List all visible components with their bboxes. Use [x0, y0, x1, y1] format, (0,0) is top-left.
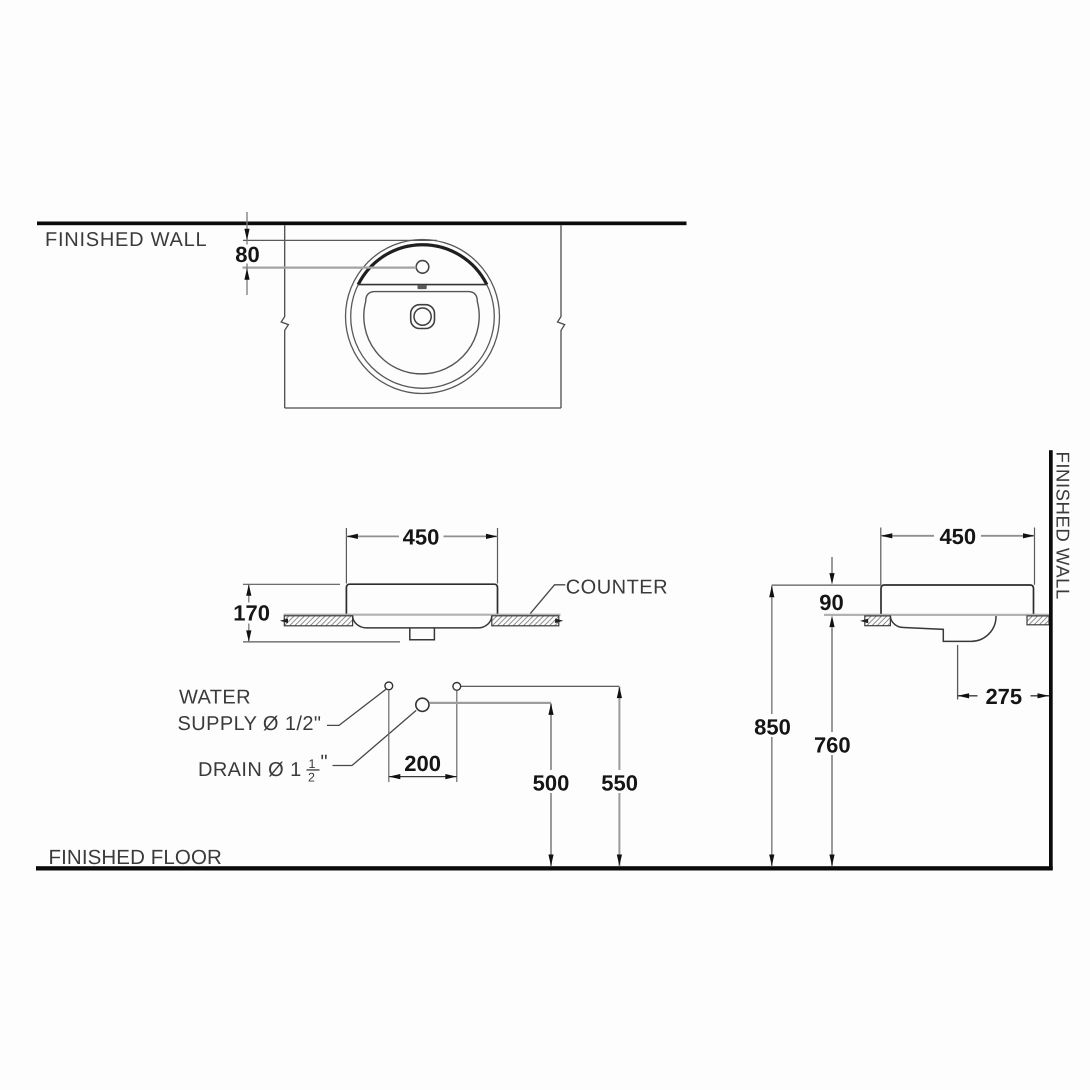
dim 275: right arrow: [1038, 693, 1050, 698]
dim 170: text: [231, 603, 272, 624]
dim 450 side: right extension line: [1034, 528, 1036, 585]
svg-text:WATER: WATER: [179, 687, 251, 709]
dim 550: text: [596, 770, 642, 793]
svg-text:80: 80: [235, 242, 259, 267]
dim 500: arrow down: [548, 855, 553, 867]
dim 170: arrow up: [246, 584, 251, 596]
dim 200: left extension line: [388, 690, 390, 782]
counter left slab hatched (side view): [865, 616, 891, 626]
counter outline bottom edge (top view): [285, 407, 561, 409]
dim 275: dimension line segments: [958, 695, 978, 697]
dim 850: text: [749, 714, 795, 737]
svg-text:1: 1: [309, 757, 316, 771]
dim 760: text: [809, 732, 855, 755]
dim 80 extension line to sink top edge (top view): [243, 239, 437, 241]
sink body (side view): [881, 585, 1034, 615]
counter left slab hatched (front view): [284, 616, 352, 626]
dim 450 side: left extension line: [880, 528, 882, 585]
svg-text:FINISHED WALL: FINISHED WALL: [1053, 452, 1074, 600]
dim 850: arrow down: [769, 855, 774, 867]
dim 550: arrow down: [617, 855, 622, 867]
dim 200: dimension line: [389, 776, 457, 778]
svg-text:COUNTER: COUNTER: [566, 576, 668, 598]
dim 90: arrow down: [829, 573, 834, 585]
water supply hole left (front view): [385, 682, 393, 690]
counter top line (side view): [824, 614, 1049, 616]
water supply hole right (front view): [453, 683, 461, 691]
reference line supply to 550 dim: [461, 685, 619, 687]
counter break arrow left (side view): [860, 619, 868, 624]
dim 275: left arrow: [958, 693, 970, 698]
dim 450 side: left arrow: [881, 533, 893, 538]
counter break arrow right (front view): [555, 619, 563, 624]
reference line drain to 500 dim: [429, 702, 551, 704]
sink inner rim circle (top view): [351, 245, 495, 389]
svg-text:200: 200: [404, 751, 441, 776]
COUNTER leader line: [530, 585, 565, 614]
dim 450 front: left extension line: [345, 528, 347, 584]
dim 90: upper dimension line: [831, 557, 833, 574]
drain fraction 1/2 stacked: [308, 757, 316, 784]
svg-text:DRAIN Ø 1: DRAIN Ø 1: [198, 759, 302, 781]
dim 450 front: right extension line: [497, 528, 499, 584]
svg-text:FINISHED FLOOR: FINISHED FLOOR: [49, 846, 222, 869]
dim 760: arrow down: [829, 855, 834, 867]
dim 760: dimension line: [831, 627, 833, 866]
counter top line (front view): [284, 614, 561, 616]
dim 80 dimension line (top view): [246, 212, 248, 295]
bowl underside with trap (side view): [890, 616, 996, 642]
dim 80 arrow down: [244, 229, 249, 241]
deck chord line (top view): [358, 284, 487, 286]
sink outer rim circle (top view): [346, 240, 500, 394]
dim 450 front: right arrow: [486, 534, 498, 539]
svg-text:90: 90: [819, 590, 843, 615]
counter right slab hatched (side view): [1027, 616, 1049, 625]
counter outline right edge with break (top view): [558, 225, 565, 408]
svg-text:450: 450: [403, 525, 440, 550]
svg-text:SUPPLY Ø 1/2": SUPPLY Ø 1/2": [178, 713, 322, 735]
faucet hole (top view): [416, 261, 429, 274]
svg-text:2: 2: [308, 771, 315, 785]
dim 80 arrow up: [244, 268, 249, 280]
drain stub (front view): [410, 628, 435, 640]
dim 170: bottom extension line: [243, 641, 400, 643]
svg-text:550: 550: [601, 771, 638, 796]
drain centerline (side view): [957, 645, 959, 700]
overflow slot (top view): [418, 285, 427, 289]
dim 450 front: left arrow: [346, 534, 358, 539]
dim 500: arrow up: [548, 703, 553, 715]
counter break arrow left (front view): [280, 619, 288, 624]
dim 500: text: [528, 770, 574, 793]
bowl underside (front view): [353, 616, 492, 628]
dim 90: arrow up: [829, 616, 834, 628]
finished floor line: [36, 866, 1053, 870]
dim 550: dimension line: [618, 687, 620, 866]
dim 500: dimension line: [550, 703, 552, 866]
counter right slab hatched (front view): [492, 616, 559, 626]
dim 200: right extension line: [456, 691, 458, 782]
dim 170: arrow down: [246, 630, 251, 642]
svg-text:": ": [321, 752, 328, 774]
finished wall line (side view, right): [1049, 450, 1053, 870]
finished wall line (top view): [37, 222, 687, 226]
dim 200: left arrow: [389, 774, 401, 779]
svg-text:850: 850: [754, 715, 791, 740]
dim 850: dimension line: [771, 586, 773, 866]
drain pipe circle (front view): [416, 698, 429, 711]
dim 450 side: right arrow: [1023, 533, 1035, 538]
extension line at rim level (side view): [772, 584, 881, 586]
dim 200: right arrow: [445, 774, 457, 779]
drain inner ring (top view): [414, 308, 431, 325]
drain leader line: [333, 710, 417, 765]
water supply leader line: [327, 689, 386, 725]
svg-text:500: 500: [533, 771, 570, 796]
svg-text:450: 450: [939, 524, 976, 549]
counter outline left edge with break (top view): [281, 225, 288, 408]
dim 850: arrow up: [769, 586, 774, 598]
svg-text:FINISHED WALL: FINISHED WALL: [45, 229, 207, 251]
dim 80 extension line to faucet hole (top view): [243, 267, 417, 269]
svg-text:275: 275: [985, 684, 1022, 709]
svg-text:760: 760: [814, 733, 851, 758]
dim 550: arrow up: [617, 687, 622, 699]
dim 80 text: [233, 245, 263, 264]
dim 170: dimension line: [248, 584, 250, 642]
dim 170: top extension line: [243, 583, 340, 585]
thick deck arc (top view): [358, 245, 487, 285]
basin bowl outline (top view): [364, 292, 479, 374]
dim 450 front: dimension line segments: [346, 535, 399, 537]
sink body (front view): [346, 584, 497, 614]
dim 450 side: dimension line segments: [881, 535, 934, 537]
svg-text:170: 170: [233, 601, 270, 626]
drain outer ring (top view): [411, 305, 435, 329]
